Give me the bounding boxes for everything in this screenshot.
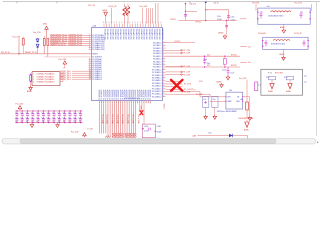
ground AGND (below C70) <box>204 115 208 120</box>
svg-text:Px_3.3V: Px_3.3V <box>184 92 191 94</box>
svg-text:P0.16/AD1.0: P0.16/AD1.0 <box>152 85 162 88</box>
svg-text:D0x: D0x <box>209 133 212 135</box>
svg-text:P0.14/AD1.2: P0.14/AD1.2 <box>152 79 162 82</box>
diode D2 <box>36 44 39 54</box>
power flag VCC_3V (top of U1) <box>88 5 117 23</box>
power flag +3V3 (cap bank) <box>16 103 24 111</box>
svg-text:Px_3.0V: Px_3.0V <box>196 94 203 96</box>
svg-text:P0.2/AD1.2: P0.2/AD1.2 <box>153 47 162 50</box>
svg-text:C2x: C2x <box>31 117 34 119</box>
svg-text:P1.11/USBDP: P1.11/USBDP <box>144 90 146 100</box>
svg-text:P0.11/AD1.3: P0.11/AD1.3 <box>152 71 162 74</box>
net stub C30 <box>240 18 247 20</box>
svg-text:P1.11/USBDP: P1.11/USBDP <box>101 90 103 100</box>
svg-text:P0.20/AD1.0: P0.20/AD1.0 <box>152 95 162 98</box>
power flag VCC3V (FB2 left) <box>258 33 266 35</box>
svg-text:P1.10/USBDP: P1.10/USBDP <box>142 89 144 99</box>
svg-text:P1_3.3V: P1_3.3V <box>183 74 191 76</box>
ground AGND (below crystal) <box>226 76 230 81</box>
svg-text:P0.13/AD1.1: P0.13/AD1.1 <box>152 77 162 80</box>
MCU U1 body <box>92 25 163 100</box>
svg-text:SfTW37xx-CHEYBL-BBMW: SfTW37xx-CHEYBL-BBMW <box>217 111 237 113</box>
svg-text:P1.12/USBDP: P1.12/USBDP <box>125 89 127 99</box>
filter module FB2 <box>262 37 309 49</box>
svg-text:C2x: C2x <box>73 113 76 115</box>
svg-text:P1.11/USBDP: P1.11/USBDP <box>122 90 124 100</box>
svg-text:Pxx_3.3V: Pxx_3.3V <box>59 59 67 61</box>
svg-text:45: 45 <box>89 76 91 78</box>
svg-text:Pxx_3.3V: Pxx_3.3V <box>13 36 21 38</box>
wire RTCK <box>205 2 229 22</box>
svg-text:C2x: C2x <box>15 113 18 115</box>
sheet top border <box>3 2 320 4</box>
capacitor C20 <box>225 17 235 35</box>
svg-text:3: 3 <box>33 79 34 81</box>
svg-text:C2x: C2x <box>47 117 50 119</box>
svg-text:P1.17/USBDP: P1.17/USBDP <box>135 89 137 99</box>
svg-text:P1.18/USBDP: P1.18/USBDP <box>137 89 139 99</box>
no-connect cross (bottom) <box>140 110 144 115</box>
capacitor C10 <box>184 15 230 21</box>
svg-text:VCC3_3V: VCC3_3V <box>109 6 118 8</box>
power flag +3V3 (above connector) <box>59 59 67 68</box>
svg-text:VCC3_3V: VCC3_3V <box>294 33 302 35</box>
svg-text:P1.13/USBDP: P1.13/USBDP <box>127 89 129 99</box>
svg-text:P0.7/AD1.3: P0.7/AD1.3 <box>153 60 162 63</box>
svg-text:x2x: x2x <box>304 81 307 83</box>
svg-text:P1.13/USBDP: P1.13/USBDP <box>148 89 150 99</box>
power flag +3V3 (FB1 right) <box>295 3 312 11</box>
svg-text:C2x: C2x <box>52 117 55 119</box>
ground AGND (below C80) <box>213 115 217 120</box>
svg-text:C246: C246 <box>156 126 160 128</box>
U1 top pins <box>103 22 164 41</box>
svg-text:P1.12/USBDP: P1.12/USBDP <box>146 89 148 99</box>
svg-text:C2x: C2x <box>26 113 29 115</box>
svg-text:P0.19/AD1.3: P0.19/AD1.3 <box>152 93 162 96</box>
U1 right pin net labels <box>166 49 191 76</box>
svg-text:P0.12/AD1.0: P0.12/AD1.0 <box>152 74 162 77</box>
svg-text:P0.3/AD1.3: P0.3/AD1.3 <box>153 50 162 53</box>
svg-text:C2x: C2x <box>31 113 34 115</box>
svg-text:C2x: C2x <box>15 117 18 119</box>
ground AGND (top left of U1) <box>103 9 108 24</box>
svg-text:Pxx_3.3V: Pxx_3.3V <box>71 132 79 134</box>
power flag +3V3 (far left) <box>13 36 21 54</box>
svg-text:C2x: C2x <box>63 117 66 119</box>
test point TP1 <box>266 77 276 93</box>
svg-text:C2x: C2x <box>73 117 76 119</box>
svg-text:P1_3.3V: P1_3.3V <box>183 72 191 74</box>
resistor R29 <box>22 37 24 54</box>
svg-text:4.7k: 4.7k <box>207 65 210 67</box>
svg-text:P0.25/AD0.4: P0.25/AD0.4 <box>92 78 102 81</box>
ground AGND (LED chain) <box>244 122 249 132</box>
diode D1 <box>36 38 39 42</box>
svg-text:C2x: C2x <box>20 113 23 115</box>
svg-text:P1.18/USBDP: P1.18/USBDP <box>116 89 118 99</box>
svg-text:CONRXD_P0.12/AD0.2: CONRXD_P0.12/AD0.2 <box>37 78 55 81</box>
svg-text:AGND: AGND <box>280 26 286 29</box>
svg-text:43: 43 <box>89 72 91 74</box>
svg-text:RESET_P1.14: RESET_P1.14 <box>25 52 37 54</box>
U1 right pins <box>152 41 166 98</box>
wire LED-SENSE <box>239 118 255 122</box>
svg-text:6N4EINT1X_P0.16: 6N4EINT1X_P0.16 <box>50 44 65 46</box>
svg-text:C2x: C2x <box>68 113 71 115</box>
wire RESET net <box>0 52 98 56</box>
svg-text:VBAT: VBAT <box>227 100 231 103</box>
capacitor C240 box <box>142 124 156 138</box>
test point TP2 <box>284 77 294 93</box>
svg-text:P1_3.3V: P1_3.3V <box>183 50 191 52</box>
svg-text:C2x: C2x <box>63 113 66 115</box>
svg-text:4: 4 <box>33 82 34 84</box>
svg-text:42: 42 <box>89 70 91 72</box>
svg-text:P1.10/USBDP: P1.10/USBDP <box>120 89 122 99</box>
svg-text:TPx1: TPx1 <box>266 77 270 79</box>
svg-text:AGND: AGND <box>280 53 286 56</box>
svg-text:P1.10/USBDP: P1.10/USBDP <box>99 89 101 99</box>
jumper JP1 <box>30 74 32 86</box>
svg-text:C2x: C2x <box>57 113 60 115</box>
power flag +3V3 (bottom left of packs) <box>71 128 94 137</box>
resistor pair R40 R41 <box>105 136 109 138</box>
svg-text:VCC(x)3V: VCC(x)3V <box>258 33 266 35</box>
svg-text:C7x: C7x <box>203 99 206 101</box>
svg-text:AGND: AGND <box>219 32 225 35</box>
svg-text:C2x: C2x <box>47 113 50 115</box>
svg-text:C2x: C2x <box>36 113 39 115</box>
svg-text:P0.15/AD1.3: P0.15/AD1.3 <box>152 82 162 85</box>
IC U3 battery switch <box>217 90 243 113</box>
svg-text:DBGRXD_P0.15: DBGRXD_P0.15 <box>69 44 82 46</box>
ground AGND (cap bank 1) <box>30 123 34 128</box>
capacitor C246 <box>156 126 162 133</box>
U1 left pins group B with net labels <box>60 70 102 81</box>
wire ISP net <box>44 57 102 59</box>
svg-text:1: 1 <box>33 74 34 76</box>
wire VBAT <box>166 81 226 101</box>
svg-text:CONRXD_P0.11/AD0.1: CONRXD_P0.11/AD0.1 <box>37 75 55 78</box>
svg-text:LED4/GND-SENSE: LED4/GND-SENSE <box>239 118 255 120</box>
svg-text:C2x: C2x <box>57 117 60 119</box>
svg-text:P1.13/USBDP: P1.13/USBDP <box>105 89 107 99</box>
decoupling capacitor bank rail <box>15 111 83 123</box>
svg-text:P0.0/AD1.0: P0.0/AD1.0 <box>153 41 162 44</box>
svg-text:LPVCC: LPVCC <box>175 41 182 43</box>
wire LAB net <box>193 133 248 142</box>
svg-text:Pxx_3.3V: Pxx_3.3V <box>33 32 41 34</box>
svg-text:RTCX1: RTCX1 <box>231 54 237 56</box>
svg-text:VBUS_x: VBUS_x <box>163 104 165 110</box>
svg-text:P1.16/USBDP: P1.16/USBDP <box>133 89 135 99</box>
svg-text:C2x: C2x <box>52 113 55 115</box>
svg-text:Pxx_3.3V: Pxx_3.3V <box>140 6 148 8</box>
test point group box <box>261 69 303 95</box>
svg-text:P1.19/USBDP: P1.19/USBDP <box>139 89 141 99</box>
filter module FB1 <box>257 6 311 24</box>
svg-text:P0.4/AD1.0: P0.4/AD1.0 <box>153 52 162 55</box>
bottom scrollbar thumb <box>20 139 318 144</box>
crystal Y1 <box>223 56 226 67</box>
wire RTCX2 <box>166 65 241 68</box>
svg-text:x1x: x1x <box>304 75 307 77</box>
svg-text:BLM21BD272TN1D: BLM21BD272TN1D <box>271 44 286 46</box>
svg-text:P0.1/AD1.1: P0.1/AD1.1 <box>153 44 162 47</box>
ground AGND (top right) <box>219 32 227 39</box>
power flag VCC3_3V (FB2 right) <box>294 33 302 35</box>
ground AGND (below JP1) <box>27 86 33 93</box>
svg-text:C240: C240 <box>144 126 148 128</box>
wire RTCX1 <box>166 54 241 57</box>
no-connect cross (right of U1) <box>166 80 196 91</box>
capacitor C68 <box>203 56 210 65</box>
ground AGND (right of U3) <box>248 116 252 121</box>
svg-text:44: 44 <box>89 74 91 76</box>
svg-text:470pF: 470pF <box>156 131 162 133</box>
wire LPVCC <box>166 41 196 43</box>
svg-text:RTXT BTL: RTXT BTL <box>275 72 283 74</box>
resistor R60 <box>240 99 248 118</box>
svg-text:P1.16/USBDP: P1.16/USBDP <box>112 89 114 99</box>
svg-text:OPVCC: OPVCC <box>170 19 177 21</box>
capacitor C80 <box>212 96 218 114</box>
svg-text:22pF: 22pF <box>207 63 211 65</box>
svg-text:C2x: C2x <box>26 117 29 119</box>
svg-text:C2x: C2x <box>79 117 82 119</box>
svg-text:P1.17/USBDP: P1.17/USBDP <box>114 89 116 99</box>
resistor pack RP4 <box>131 133 137 137</box>
svg-text:P1_3.0V: P1_3.0V <box>184 84 192 86</box>
svg-text:P0.9/AD1.1: P0.9/AD1.1 <box>153 66 162 69</box>
svg-text:P0.26/AD0.3/RX: P0.26/AD0.3/RX <box>92 48 105 51</box>
svg-text:C2x: C2x <box>42 117 45 119</box>
capacitor C70 <box>203 96 209 114</box>
svg-text:C2x: C2x <box>79 113 82 115</box>
svg-text:4.7uF: 4.7uF <box>231 19 235 21</box>
ground AGND (below FB2) <box>280 49 286 60</box>
net stub C31 <box>240 46 251 48</box>
svg-text:CONRXD_P0.13/AD0.3: CONRXD_P0.13/AD0.3 <box>37 81 55 84</box>
power flag +3V3 (LED chain) <box>239 78 247 102</box>
svg-text:0.1uF: 0.1uF <box>230 73 234 75</box>
svg-text:BLM21BD272TN1D: BLM21BD272TN1D <box>269 15 285 17</box>
resistor R31 <box>47 39 49 57</box>
svg-text:C5x8: C5x8 <box>222 69 226 71</box>
svg-text:0.1k: 0.1k <box>207 54 210 56</box>
svg-text:24x 7k: 24x 7k <box>214 3 219 5</box>
svg-text:TPx2: TPx2 <box>284 77 288 79</box>
svg-text:AGND: AGND <box>217 80 223 83</box>
svg-text:P0.10/AD1.2: P0.10/AD1.2 <box>152 68 162 71</box>
net stub C32 <box>240 62 251 64</box>
svg-text:C2x: C2x <box>68 117 71 119</box>
diode D07 <box>229 134 233 137</box>
power flag +3V3 (top middle) <box>140 3 159 23</box>
svg-text:Pxx_3.3V: Pxx_3.3V <box>295 3 303 5</box>
svg-text:OPVCC: OPVCC <box>195 22 202 24</box>
U1 bottom pins <box>99 89 152 104</box>
svg-text:P0.5/AD1.1: P0.5/AD1.1 <box>153 55 162 58</box>
power flag VCC3.3V (FB1 left) <box>252 3 260 11</box>
svg-text:C8x: C8x <box>213 99 216 101</box>
svg-text:VCC_3V: VCC_3V <box>88 5 96 7</box>
svg-text:RESET: RESET <box>92 54 98 56</box>
svg-text:ISP_P2.10: ISP_P2.10 <box>1 52 10 54</box>
svg-text:AGND: AGND <box>27 90 33 93</box>
resistor pack RP2 <box>118 133 124 137</box>
svg-text:46: 46 <box>89 78 91 80</box>
ground AGND (cap bank 2) <box>56 123 60 128</box>
svg-text:P1.14/USBDP: P1.14/USBDP <box>108 89 110 99</box>
resistor R24 network <box>185 3 197 21</box>
svg-text:P0.8/AD1.0: P0.8/AD1.0 <box>153 63 162 66</box>
svg-text:C2x: C2x <box>42 113 45 115</box>
svg-text:24x 4.7k: 24x 4.7k <box>190 4 197 6</box>
wire OPVCC <box>170 19 237 24</box>
sheet right border <box>315 2 317 136</box>
decoupling capacitors C201-C213 <box>15 110 82 123</box>
svg-text:C2x: C2x <box>20 117 23 119</box>
resistor pack RP3 <box>125 133 131 137</box>
bottom scrollbar track <box>2 139 316 144</box>
svg-text:P1.19/USBDP: P1.19/USBDP <box>118 89 120 99</box>
svg-text:P1.15/USBDP: P1.15/USBDP <box>131 89 133 99</box>
svg-text:Cxx: Cxx <box>248 46 251 48</box>
power flag +3V3 (left) <box>33 24 48 39</box>
svg-text:C2x: C2x <box>36 117 39 119</box>
svg-text:C20x: C20x <box>231 17 235 19</box>
U1 left pins group A with net labels <box>50 34 106 51</box>
svg-text:Cxx: Cxx <box>248 62 251 64</box>
U1 left pins group C <box>89 58 102 71</box>
capacitor C58 <box>222 67 234 76</box>
svg-text:P0.6/AD1.2: P0.6/AD1.2 <box>153 58 162 61</box>
svg-text:Pxx_3.3V: Pxx_3.3V <box>16 103 24 105</box>
resistor R58 <box>243 82 262 116</box>
connector J1 <box>32 71 63 86</box>
inductor L1 (top of U1) <box>123 4 130 24</box>
resistor R30 <box>43 36 45 54</box>
svg-text:P0.18/AD1.2: P0.18/AD1.2 <box>152 90 162 93</box>
svg-text:P1.14/USBDP: P1.14/USBDP <box>129 89 131 99</box>
ground AGND (below FB1) <box>280 24 286 33</box>
svg-text:2: 2 <box>33 76 34 78</box>
node labels right of test box <box>304 75 307 83</box>
svg-text:P0.17/AD1.1: P0.17/AD1.1 <box>152 87 162 90</box>
svg-text:Pxx_3.3V: Pxx_3.3V <box>239 78 247 80</box>
svg-text:CONRXD_P0.10/AD0.0: CONRXD_P0.10/AD0.0 <box>37 73 55 76</box>
U1 bottom pin wires to resistor packs <box>100 103 165 137</box>
svg-text:RTCX2: RTCX2 <box>231 65 237 67</box>
svg-text:P1.12/USBDP: P1.12/USBDP <box>103 89 105 99</box>
resistor pack RP1 <box>113 133 119 137</box>
svg-text:P1_3.3V: P1_3.3V <box>183 53 191 55</box>
ground AGND (above U3) <box>217 80 224 87</box>
svg-text:P1.15/USBDP: P1.15/USBDP <box>110 89 112 99</box>
svg-text:P 1.1: P 1.1 <box>268 72 272 74</box>
